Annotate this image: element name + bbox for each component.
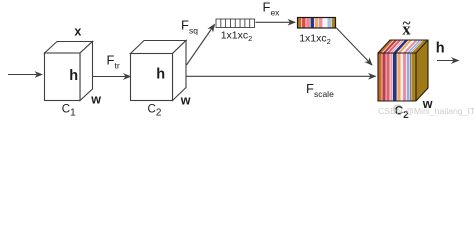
arrow F_sq (diagonal to squeeze vector) <box>187 25 215 66</box>
box C2 (transformed feature map) <box>131 41 187 101</box>
excitation vector 1x1xC2 (colored bar) <box>298 18 336 29</box>
scaled output feature map x~ (striped block) <box>378 40 428 101</box>
svg-text:w: w <box>180 94 191 108</box>
svg-text:h: h <box>156 67 165 83</box>
svg-text:~: ~ <box>403 16 411 32</box>
svg-text:w: w <box>90 93 101 107</box>
svg-text:x: x <box>74 25 81 39</box>
arrow (excitation vector to scaled output) <box>336 28 372 66</box>
output arrow <box>437 60 459 62</box>
svg-text:1x1xc2: 1x1xc2 <box>299 33 331 47</box>
input arrow <box>8 74 42 76</box>
arrow F_ex <box>256 21 296 23</box>
arrow F_scale <box>186 75 376 77</box>
svg-text:CSDN @Mini_hailang_IT: CSDN @Mini_hailang_IT <box>378 106 474 116</box>
squeeze vector 1x1xC2 (white bar) <box>216 19 255 28</box>
svg-text:h: h <box>69 68 78 84</box>
box C1 (input feature map) <box>45 42 93 101</box>
arrow F_tr <box>93 76 131 78</box>
svg-text:1x1xc2: 1x1xc2 <box>221 30 253 44</box>
svg-text:h: h <box>436 41 445 57</box>
